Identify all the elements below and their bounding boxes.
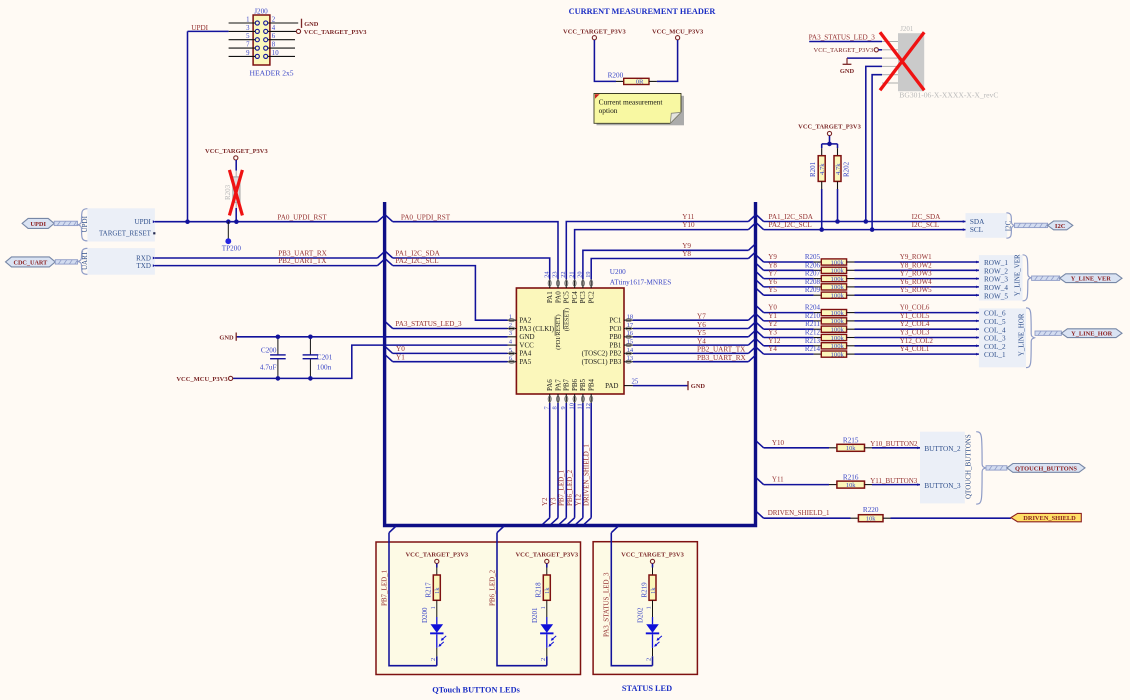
svg-text:14: 14 (627, 347, 634, 354)
svg-text:PB2_UART_TX: PB2_UART_TX (697, 346, 746, 354)
svg-text:COL_3: COL_3 (984, 335, 1006, 343)
svg-text:CDC_UART: CDC_UART (13, 259, 48, 266)
svg-text:4.7k: 4.7k (819, 163, 826, 175)
svg-text:PA3 (CLKI): PA3 (CLKI) (519, 325, 554, 333)
svg-text:R213: R213 (805, 337, 821, 345)
svg-text:Y8_ROW2: Y8_ROW2 (900, 261, 932, 269)
svg-text:Y2: Y2 (541, 497, 549, 506)
svg-text:PA3_STATUS_LED_3: PA3_STATUS_LED_3 (809, 34, 876, 42)
svg-text:UART: UART (81, 251, 89, 270)
svg-text:18: 18 (627, 314, 634, 321)
svg-text:VCC_TARGET_P3V3: VCC_TARGET_P3V3 (814, 47, 874, 54)
svg-text:R204: R204 (805, 304, 821, 312)
svg-text:PC1: PC1 (609, 317, 622, 325)
svg-text:Y11_BUTTON3: Y11_BUTTON3 (870, 477, 918, 485)
svg-text:VCC_TARGET_P3V3: VCC_TARGET_P3V3 (515, 551, 578, 558)
svg-text:3: 3 (246, 25, 250, 32)
svg-text:PC3: PC3 (579, 291, 587, 304)
svg-text:1k: 1k (434, 587, 441, 594)
svg-text:TARGET_RESET: TARGET_RESET (99, 229, 152, 237)
svg-text:2: 2 (272, 16, 276, 23)
svg-text:DRIVEN_SHIELD_1: DRIVEN_SHIELD_1 (768, 509, 830, 517)
svg-text:Y4: Y4 (768, 345, 777, 353)
svg-text:PC0: PC0 (609, 325, 622, 333)
svg-text:PA0_UPDI_RST: PA0_UPDI_RST (277, 213, 327, 221)
svg-text:5: 5 (246, 33, 250, 40)
svg-text:R220: R220 (863, 506, 879, 514)
svg-text:Y6: Y6 (768, 278, 777, 286)
svg-text:COL_2: COL_2 (984, 343, 1006, 351)
svg-text:VCC_MCU_P3V3: VCC_MCU_P3V3 (176, 376, 228, 383)
svg-text:Y12: Y12 (768, 337, 781, 345)
svg-text:VCC_TARGET_P3V3: VCC_TARGET_P3V3 (205, 148, 268, 155)
svg-text:PA6: PA6 (546, 379, 554, 391)
svg-text:4: 4 (272, 25, 276, 32)
svg-text:VCC: VCC (519, 341, 534, 349)
svg-text:Y11: Y11 (682, 213, 695, 221)
svg-text:D202: D202 (637, 607, 645, 623)
svg-text:COL_5: COL_5 (984, 318, 1006, 326)
svg-text:17: 17 (627, 322, 634, 329)
svg-text:PA2_I2C_SCL: PA2_I2C_SCL (395, 257, 438, 265)
svg-text:PB7_LED_1: PB7_LED_1 (558, 469, 566, 506)
svg-text:16: 16 (627, 330, 634, 337)
svg-text:Y0_COL6: Y0_COL6 (900, 304, 930, 312)
svg-text:D200: D200 (421, 607, 429, 623)
svg-text:Y6_ROW4: Y6_ROW4 (900, 278, 932, 286)
svg-text:I2C_SCL: I2C_SCL (912, 221, 940, 229)
svg-text:PB4: PB4 (588, 378, 596, 391)
svg-text:Y_LINE_HOR: Y_LINE_HOR (1071, 331, 1113, 338)
svg-text:R215: R215 (843, 437, 859, 445)
svg-text:R201: R201 (809, 161, 817, 177)
svg-text:1: 1 (646, 606, 653, 609)
svg-text:GND: GND (840, 68, 855, 75)
svg-text:100k: 100k (831, 327, 845, 334)
svg-text:R219: R219 (640, 582, 648, 598)
svg-text:PA7: PA7 (554, 379, 562, 391)
svg-text:13: 13 (627, 355, 634, 362)
svg-text:100k: 100k (831, 310, 845, 317)
svg-text:100k: 100k (831, 351, 845, 358)
svg-text:PB7_LED_1: PB7_LED_1 (380, 569, 388, 606)
svg-text:PC2: PC2 (588, 291, 596, 304)
svg-text:R203: R203 (224, 184, 232, 200)
svg-text:R205: R205 (805, 253, 821, 261)
svg-text:PA1_I2C_SDA: PA1_I2C_SDA (769, 213, 814, 221)
svg-text:COL_4: COL_4 (984, 326, 1006, 334)
svg-text:BUTTON_3: BUTTON_3 (924, 482, 961, 490)
svg-text:Y5: Y5 (768, 286, 777, 294)
svg-text:COL_1: COL_1 (984, 351, 1006, 359)
svg-text:10k: 10k (866, 515, 876, 522)
svg-text:2: 2 (430, 658, 437, 661)
svg-text:QTouch BUTTON LEDs: QTouch BUTTON LEDs (432, 686, 520, 695)
svg-text:SDA: SDA (970, 218, 985, 226)
svg-text:R212: R212 (805, 329, 821, 337)
svg-text:Y8: Y8 (682, 250, 691, 258)
svg-text:Y0: Y0 (396, 345, 405, 353)
svg-text:I2C_SDA: I2C_SDA (912, 213, 942, 221)
svg-text:U200: U200 (610, 268, 626, 276)
svg-text:Y10: Y10 (772, 439, 785, 447)
svg-text:GND: GND (519, 333, 534, 341)
svg-text:Y2_COL4: Y2_COL4 (900, 320, 930, 328)
svg-text:100k: 100k (831, 343, 845, 350)
svg-text:BUTTON_2: BUTTON_2 (924, 445, 961, 453)
svg-text:PB5: PB5 (579, 378, 587, 391)
svg-text:PB2_UART_TX: PB2_UART_TX (278, 257, 327, 265)
svg-text:C201: C201 (317, 353, 333, 361)
svg-text:1: 1 (430, 606, 437, 609)
svg-text:PA3_STATUS_LED_3: PA3_STATUS_LED_3 (395, 320, 462, 328)
svg-text:PB6: PB6 (571, 378, 579, 391)
svg-text:6: 6 (272, 33, 276, 40)
svg-text:ROW_1: ROW_1 (984, 259, 1008, 267)
svg-text:Y9: Y9 (768, 253, 777, 261)
svg-text:ROW_4: ROW_4 (984, 284, 1008, 292)
svg-text:DRIVEN_SHIELD_1: DRIVEN_SHIELD_1 (583, 444, 591, 506)
svg-text:2: 2 (646, 658, 653, 661)
svg-text:Y11: Y11 (772, 476, 784, 484)
svg-text:Y9: Y9 (682, 242, 691, 250)
svg-text:PB6_LED_2: PB6_LED_2 (566, 469, 574, 506)
svg-text:Y4_COL1: Y4_COL1 (900, 345, 930, 353)
svg-text:4.7uF: 4.7uF (260, 363, 277, 371)
svg-text:J200: J200 (254, 8, 268, 16)
svg-text:PB1: PB1 (609, 341, 622, 349)
svg-text:PB3_UART_RX: PB3_UART_RX (697, 354, 746, 362)
svg-text:R211: R211 (805, 320, 820, 328)
svg-text:Y7: Y7 (768, 270, 777, 278)
svg-text:100k: 100k (831, 276, 845, 283)
svg-text:1: 1 (246, 16, 249, 23)
svg-text:Y1: Y1 (396, 353, 405, 361)
svg-text:PAD: PAD (605, 382, 618, 390)
svg-text:R209: R209 (805, 286, 821, 294)
svg-text:100k: 100k (831, 259, 845, 266)
svg-text:R208: R208 (805, 278, 821, 286)
svg-text:ROW_2: ROW_2 (984, 267, 1008, 275)
svg-text:100n: 100n (317, 363, 332, 371)
svg-text:D201: D201 (531, 607, 539, 623)
svg-text:UPDI: UPDI (135, 218, 152, 226)
svg-text:2: 2 (540, 658, 547, 661)
svg-text:Y8: Y8 (768, 261, 777, 269)
svg-text:Y1: Y1 (768, 312, 777, 320)
svg-text:C200: C200 (261, 346, 277, 354)
svg-text:Y1_COL5: Y1_COL5 (900, 312, 930, 320)
svg-text:PA0_UPDI_RST: PA0_UPDI_RST (401, 213, 451, 221)
svg-text:(RESET): (RESET) (563, 308, 570, 331)
svg-text:CURRENT MEASUREMENT HEADER: CURRENT MEASUREMENT HEADER (569, 7, 717, 16)
svg-text:VCC_MCU_P3V3: VCC_MCU_P3V3 (652, 29, 704, 36)
svg-text:10: 10 (272, 50, 279, 57)
svg-text:Y12_COL2: Y12_COL2 (900, 337, 934, 345)
svg-text:PA0: PA0 (554, 291, 562, 303)
svg-text:BG301-06-X-XXXX-X-X_revC: BG301-06-X-XXXX-X-X_revC (899, 91, 998, 100)
svg-text:Y3: Y3 (549, 497, 557, 506)
svg-text:Y10: Y10 (682, 221, 695, 229)
svg-text:QTOUCH_BUTTONS: QTOUCH_BUTTONS (1015, 465, 1077, 472)
svg-text:R207: R207 (805, 270, 821, 278)
svg-text:R217: R217 (425, 582, 433, 598)
svg-text:J201: J201 (900, 25, 914, 33)
svg-text:PC5: PC5 (563, 291, 571, 304)
svg-text:Y4: Y4 (697, 337, 706, 345)
svg-text:9: 9 (246, 50, 250, 57)
svg-text:100k: 100k (831, 335, 845, 342)
svg-text:HEADER 2x5: HEADER 2x5 (250, 68, 294, 77)
svg-text:10k: 10k (846, 482, 856, 489)
svg-text:PA3_STATUS_LED_3: PA3_STATUS_LED_3 (603, 572, 611, 637)
svg-text:R216: R216 (843, 473, 859, 481)
svg-text:Y_LINE_HOR: Y_LINE_HOR (1018, 313, 1026, 356)
svg-text:Y5: Y5 (697, 329, 706, 337)
svg-text:Y0: Y0 (768, 304, 777, 312)
svg-text:1k: 1k (544, 587, 551, 594)
svg-text:QTOUCH_BUTTONS: QTOUCH_BUTTONS (964, 434, 972, 499)
svg-text:UPDI: UPDI (30, 221, 46, 228)
svg-text:I2C: I2C (1055, 223, 1066, 230)
svg-text:GND: GND (304, 21, 319, 28)
svg-text:Y7: Y7 (697, 313, 706, 321)
svg-text:7: 7 (246, 42, 250, 49)
svg-text:SCL: SCL (970, 226, 983, 234)
svg-text:PB7: PB7 (563, 378, 571, 391)
svg-text:VCC_TARGET_P3V3: VCC_TARGET_P3V3 (563, 29, 626, 36)
svg-text:(TOSC2) PB2: (TOSC2) PB2 (582, 350, 622, 358)
svg-text:100k: 100k (831, 318, 845, 325)
svg-text:R214: R214 (805, 345, 821, 353)
svg-text:23: 23 (552, 271, 559, 277)
svg-text:VCC_TARGET_P3V3: VCC_TARGET_P3V3 (405, 551, 468, 558)
svg-text:R206: R206 (805, 261, 821, 269)
svg-text:(PDI/RESET): (PDI/RESET) (555, 314, 562, 349)
svg-text:R202: R202 (843, 161, 851, 177)
svg-text:Y10_BUTTON2: Y10_BUTTON2 (870, 440, 918, 448)
svg-text:100k: 100k (831, 284, 845, 291)
svg-text:100k: 100k (831, 268, 845, 275)
svg-text:TP200: TP200 (222, 245, 242, 253)
svg-text:Y3: Y3 (768, 329, 777, 337)
svg-text:Y5_ROW5: Y5_ROW5 (900, 286, 932, 294)
svg-text:ATtiny1617-MNRES: ATtiny1617-MNRES (610, 278, 672, 286)
svg-text:GND: GND (219, 334, 234, 341)
svg-text:R210: R210 (805, 312, 821, 320)
svg-text:ROW_5: ROW_5 (984, 292, 1008, 300)
svg-text:option: option (599, 106, 618, 115)
svg-text:Y12: Y12 (574, 493, 582, 506)
svg-text:0R: 0R (636, 79, 644, 86)
svg-text:R200: R200 (608, 72, 624, 80)
svg-text:UPDI: UPDI (191, 24, 208, 32)
svg-text:24: 24 (543, 271, 550, 278)
svg-text:10k: 10k (846, 445, 856, 452)
svg-text:ROW_3: ROW_3 (984, 276, 1008, 284)
svg-text:PA1: PA1 (546, 291, 554, 303)
svg-text:25: 25 (632, 379, 639, 386)
svg-text:DRIVEN_SHIELD: DRIVEN_SHIELD (1023, 515, 1076, 522)
svg-text:PC4: PC4 (571, 291, 579, 304)
svg-text:R218: R218 (535, 582, 543, 598)
svg-text:VCC_TARGET_P3V3: VCC_TARGET_P3V3 (621, 551, 684, 558)
svg-text:Y6: Y6 (697, 321, 706, 329)
svg-text:8: 8 (272, 42, 276, 49)
svg-text:PB0: PB0 (609, 333, 622, 341)
svg-text:Y7_ROW3: Y7_ROW3 (900, 270, 932, 278)
svg-text:1k: 1k (650, 587, 657, 594)
svg-text:Y_LINE_VER: Y_LINE_VER (1014, 254, 1022, 296)
svg-text:PA2_I2C_SCL: PA2_I2C_SCL (769, 221, 812, 229)
svg-text:(TOSC1) PB3: (TOSC1) PB3 (582, 358, 622, 366)
svg-text:100k: 100k (831, 293, 845, 300)
svg-text:4.7k: 4.7k (835, 163, 842, 175)
svg-text:GND: GND (691, 383, 706, 390)
svg-text:COL_6: COL_6 (984, 310, 1006, 318)
svg-text:PA5: PA5 (519, 358, 531, 366)
svg-text:Y_LINE_VER: Y_LINE_VER (1071, 276, 1112, 283)
svg-text:Y3_COL3: Y3_COL3 (900, 329, 930, 337)
svg-text:Y9_ROW1: Y9_ROW1 (900, 253, 932, 261)
svg-text:Y2: Y2 (768, 320, 777, 328)
svg-text:UPDI: UPDI (81, 215, 89, 232)
svg-text:VCC_TARGET_P3V3: VCC_TARGET_P3V3 (798, 124, 861, 131)
svg-text:PB6_LED_2: PB6_LED_2 (488, 569, 496, 606)
svg-text:STATUS LED: STATUS LED (622, 684, 672, 693)
svg-text:PA2: PA2 (519, 317, 531, 325)
svg-text:TXD: TXD (137, 262, 151, 270)
svg-text:PA4: PA4 (519, 350, 531, 358)
svg-text:VCC_TARGET_P3V3: VCC_TARGET_P3V3 (304, 29, 367, 36)
svg-text:1: 1 (540, 606, 547, 609)
svg-text:15: 15 (627, 339, 634, 346)
